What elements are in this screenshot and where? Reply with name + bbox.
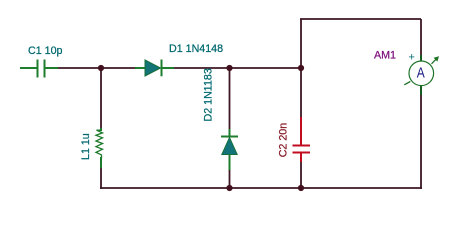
ammeter AM1 (404, 52, 439, 96)
wire: top rail (300, 18, 421, 20)
capacitor C1 (20, 60, 58, 78)
wire: ammeter branch lower (420, 92, 422, 189)
svg-text:D1 1N4148: D1 1N4148 (169, 43, 223, 55)
svg-text:A: A (417, 65, 425, 81)
svg-text:+: + (409, 52, 415, 64)
svg-text:C2 20n: C2 20n (277, 123, 289, 158)
capacitor C2 (293, 117, 311, 162)
wire: middle branch lower (D2 to bottom rail) (229, 170, 231, 189)
wire: right branch upper (node C down to C2) (300, 68, 302, 118)
svg-text:AM1: AM1 (374, 50, 396, 62)
wire: left branch lower (L1 to bottom rail) (100, 167, 102, 189)
svg-text:C1 10p: C1 10p (28, 45, 63, 57)
node A junction dot (98, 65, 104, 71)
diode D1 (135, 60, 174, 77)
wire: middle branch upper (node B down to D2) (229, 68, 231, 130)
diode D2 (221, 129, 238, 170)
bottom rail junction dot at D2 branch (226, 185, 232, 191)
node C junction dot (298, 65, 304, 71)
inductor L1 (96, 128, 103, 168)
wire: ammeter branch upper (420, 19, 422, 56)
wire: bottom rail (100, 187, 422, 189)
wire: main horizontal left segment C1 to D1 (56, 67, 136, 69)
wire: main horizontal D1 to node C (173, 67, 302, 69)
svg-text:D2 1N1183: D2 1N1183 (203, 68, 215, 121)
wire: left branch upper (node A down to L1) (100, 68, 102, 130)
svg-text:L1 1u: L1 1u (80, 133, 92, 160)
bottom rail junction dot at C2 branch (298, 185, 304, 191)
wire: vertical up from node C to top rail (300, 19, 302, 68)
wire: right branch lower (C2 to bottom rail) (300, 161, 302, 189)
node B junction dot (226, 65, 232, 71)
